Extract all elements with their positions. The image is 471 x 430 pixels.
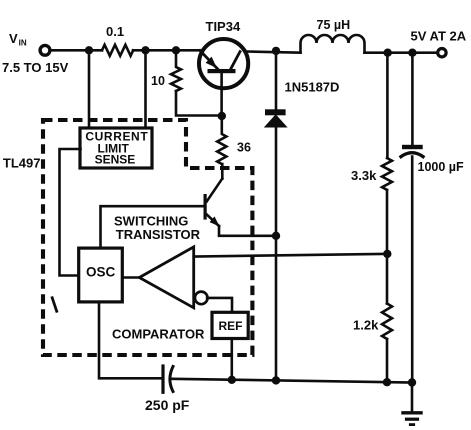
svg-text:75 µH: 75 µH xyxy=(317,18,351,32)
svg-text:TL497: TL497 xyxy=(3,155,41,170)
svg-text:V: V xyxy=(9,31,18,46)
svg-text:IN: IN xyxy=(19,38,27,47)
svg-text:TIP34: TIP34 xyxy=(206,19,241,34)
wire from resistor 10 bottom to TIP34 base node xyxy=(176,91,222,116)
comparator U1b triangle xyxy=(139,247,193,308)
svg-text:10: 10 xyxy=(151,74,165,88)
diode D1 1N5187D xyxy=(264,109,288,127)
terminal output 5V AT 2A xyxy=(438,49,446,57)
resistor 1.2k xyxy=(382,304,392,339)
svg-text:COMPARATOR: COMPARATOR xyxy=(112,327,205,342)
wire from OSC top to switching transistor base xyxy=(101,206,204,248)
inductor L1 75uH xyxy=(301,35,365,53)
transistor Q1 TIP34 xyxy=(199,39,248,113)
node junction at top of resistor 10 xyxy=(172,46,180,54)
svg-text:7.5 TO 15V: 7.5 TO 15V xyxy=(2,60,69,75)
wire from emitter node down to bottom rail xyxy=(275,236,278,381)
wire top rail from TIP34 collector to inductor xyxy=(248,52,301,53)
terminal VIN input xyxy=(40,45,50,55)
wire from cap node down to 1000uF capacitor xyxy=(411,53,414,145)
IC U1 TL497 dashed boundary xyxy=(43,120,252,355)
svg-text:36: 36 xyxy=(237,141,251,155)
resistor 10 xyxy=(171,50,181,91)
wire from REF bottom to bottom rail xyxy=(231,339,234,380)
wire from switching transistor emitter to diode line xyxy=(219,226,276,236)
label SWITCHING TRANSISTOR xyxy=(114,213,201,242)
wire from bubble to REF xyxy=(207,298,232,312)
node junction at diode cathode xyxy=(272,47,280,55)
wire from output node down to resistor 3.3k xyxy=(386,53,389,158)
wire from node A down to current limit sense left pin xyxy=(88,50,91,128)
wire bottom rail from 250pF to ground node xyxy=(172,379,413,383)
node junction ground / bottom rail xyxy=(408,378,416,386)
svg-text:250 pF: 250 pF xyxy=(145,397,190,413)
svg-text:0.1: 0.1 xyxy=(106,24,124,39)
wire from switching transistor collector to resistor 36 xyxy=(221,164,224,179)
node junction on bottom rail below diode line xyxy=(272,376,280,384)
svg-text:1N5187D: 1N5187D xyxy=(285,80,340,95)
wire comparator output to OSC xyxy=(122,276,139,279)
node junction feedback divider xyxy=(383,250,391,258)
wire from node B down to current limit sense right pin xyxy=(144,50,147,128)
resistor 0.1 xyxy=(102,45,133,56)
node junction top of divider xyxy=(384,49,392,57)
svg-text:SENSE: SENSE xyxy=(95,152,136,166)
capacitor C2 250pF xyxy=(163,366,173,392)
node junction at right side of 0.1 xyxy=(141,46,149,54)
capacitor C1 1000uF xyxy=(401,145,423,157)
node junction at VIN side of 0.1 xyxy=(85,46,93,54)
small slash mark inside TL497 box xyxy=(52,298,57,311)
svg-text:1.2k: 1.2k xyxy=(353,318,379,333)
label VIN xyxy=(9,31,27,47)
wire from feedback node down to resistor 1.2k xyxy=(386,254,389,304)
node junction REF / bottom rail xyxy=(228,376,236,384)
wire comparator input from feedback node xyxy=(194,254,388,257)
node junction TIP34 base / resistor 36 / resistor 10 xyxy=(218,112,226,120)
comparator inverting bubble xyxy=(195,292,208,305)
wire top rail from resistor 0.1 to TIP34 emitter xyxy=(133,49,200,52)
transistor Q2 switching xyxy=(204,179,223,227)
wire from 3.3k to feedback node xyxy=(386,190,389,254)
svg-text:TRANSISTOR: TRANSISTOR xyxy=(116,227,201,242)
svg-text:5V AT 2A: 5V AT 2A xyxy=(411,28,467,43)
svg-text:1000 µF: 1000 µF xyxy=(418,160,464,174)
svg-text:REF: REF xyxy=(219,319,243,333)
resistor 3.3k xyxy=(382,158,392,190)
svg-text:3.3k: 3.3k xyxy=(351,168,377,183)
node junction top of capacitor 1000uF xyxy=(408,49,416,57)
wire from OSC bottom to 250pF capacitor xyxy=(99,302,161,378)
node junction emitter / diode line xyxy=(272,232,280,240)
ground xyxy=(403,383,421,425)
wire top rail from VIN to resistor 0.1 xyxy=(52,49,103,52)
wire from diode anode down to emitter node xyxy=(275,128,278,236)
wire from capacitor bottom to ground node xyxy=(411,157,414,383)
block OSC xyxy=(79,248,123,302)
wire from 1.2k bottom to ground rail xyxy=(386,339,389,382)
wire top rail from inductor to output terminal xyxy=(365,51,437,54)
block current limit sense xyxy=(80,128,152,168)
node junction 1.2k / bottom rail xyxy=(383,378,391,386)
svg-text:OSC: OSC xyxy=(86,265,116,280)
wire from current limit sense to OSC xyxy=(60,149,81,276)
block REF xyxy=(212,312,248,338)
wire from node down to diode xyxy=(275,51,278,109)
resistor 36 xyxy=(217,116,226,164)
svg-text:SWITCHING: SWITCHING xyxy=(114,213,188,228)
